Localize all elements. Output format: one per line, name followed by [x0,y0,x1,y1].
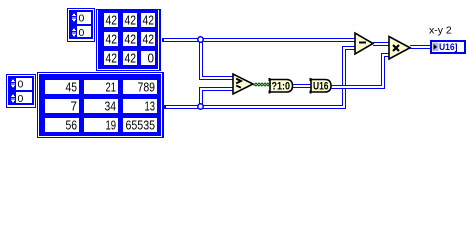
wire W4 branch up from J2 to Greater-Or-Equal y input [199,87,233,106]
svg-text:42: 42 [106,31,118,46]
svg-text:0: 0 [148,50,155,65]
svg-text:19: 19 [106,117,117,132]
indicator terminal "x-y 2" [U16] [431,41,465,53]
svg-text:42: 42 [106,12,118,27]
A1 cell r1c3 value 42 [141,12,155,27]
svg-text:42: 42 [125,31,137,46]
svg-text:42: 42 [143,31,155,46]
svg-text:0: 0 [79,13,85,25]
A2 cell r2c3 value 13 [123,98,157,113]
svg-text:x-y 2: x-y 2 [429,25,452,37]
A2 cell r1c2 value 21 [84,79,118,94]
svg-text:U16]: U16] [439,42,458,53]
A1 index scroll buttons column [71,11,77,38]
A2 cell r2c1 value 7 [45,98,79,113]
A1 cell r3c3 value 0 [141,50,155,65]
A1 cell r2c1 value 42 [104,31,118,46]
svg-text:13: 13 [145,98,156,113]
label "x-y 2" for indicator [429,25,452,37]
wire W2 branch down from J1 to Greater-Or-Equal x input [199,42,233,80]
svg-text:56: 56 [66,117,78,132]
A1 cell r3c1 value 42 [104,50,118,65]
junction J1 on wire W1 [198,37,203,42]
A2 cell r2c2 value 34 [84,98,118,113]
A2 index value 0 (column) [18,93,24,105]
svg-text:65535: 65535 [126,117,156,132]
svg-text:789: 789 [138,79,156,94]
svg-text:45: 45 [66,79,78,94]
array constant A1 (top 2D array of 42s) index display frame [68,9,95,42]
A1 cell r1c2 value 42 [123,12,137,27]
svg-text:?1:0: ?1:0 [272,80,291,92]
array constant A2 (bottom 2D array) index display frame [7,75,36,108]
wire W7 U2 output to U3 input [293,84,311,88]
A1 cell r3c2 value 42 [123,50,137,65]
junction J2 on wire W3 [198,104,203,109]
svg-text:42: 42 [125,12,137,27]
array constant A2 shell [38,72,165,138]
wire W8 U3 output to Multiply y input (with riser at x=381) [331,53,389,89]
A2 cell r1c3 value 789 [123,79,157,94]
svg-text:U16: U16 [313,80,329,92]
op node U2: Boolean To (0,1) "?1:0" [269,78,293,94]
op node U3: To Unsigned Word Integer "U16" [310,78,332,94]
svg-text:34: 34 [105,98,117,113]
svg-text:42: 42 [106,50,118,65]
wire W1 top array to Subtract x input (horizontal, 2D array double line) [162,38,355,42]
svg-text:21: 21 [106,79,117,94]
A1 index value 0 (column) [79,27,85,39]
A1 cell r2c3 value 42 [141,31,155,46]
A2 index scroll buttons column [10,77,16,104]
svg-text:7: 7 [71,98,78,113]
A1 index value 0 (row) [79,13,85,25]
svg-text:0: 0 [18,79,24,91]
wire W5 bottom array up to Subtract y input (vertical riser) [342,46,355,109]
A1 cell r2c2 value 42 [123,31,137,46]
A1 cell r1c1 value 42 [104,12,118,27]
wire W9 Subtract output to Multiply x input [373,42,389,46]
A2 cell r3c3 value 65535 [123,117,157,132]
svg-text:42: 42 [143,12,155,27]
A2 index value 0 (row) [18,79,24,91]
array constant A1 shell [97,9,161,71]
svg-text:0: 0 [79,27,85,39]
wire W10 Multiply output to indicator terminal [410,45,431,49]
op node U1: Greater Or Equal? comparison [233,74,253,94]
op node U4: Subtract [355,33,373,54]
A2 cell r3c2 value 19 [84,117,118,132]
wire W3 bottom array horizontal segment [164,105,346,109]
A2 cell r1c1 value 45 [45,79,79,94]
wire crossing gap where W8 passes over W5 [342,86,347,88]
op node U5: Multiply [389,37,410,60]
svg-text:0: 0 [18,93,24,105]
svg-text:42: 42 [125,50,137,65]
wire W6 boolean 2D array (green braid) U1 output to U2 input [253,83,270,86]
A2 cell r3c1 value 56 [45,117,79,132]
